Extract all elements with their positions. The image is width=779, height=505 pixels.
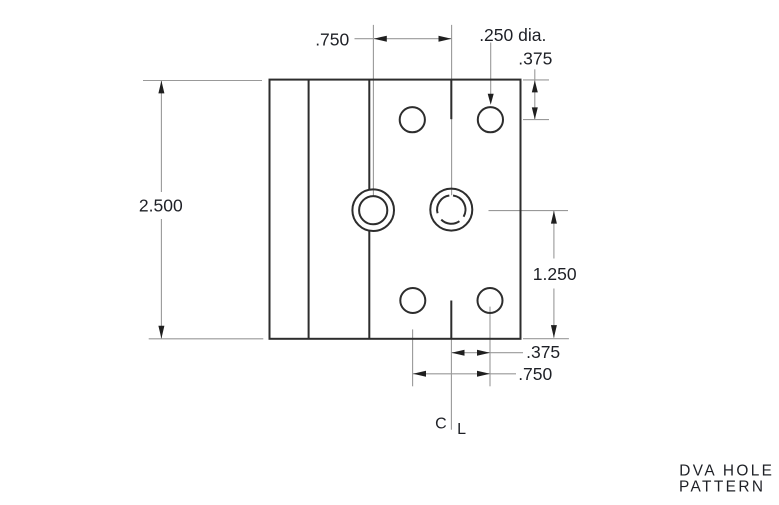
svg-text:L: L [457,421,466,438]
svg-text:PATTERN: PATTERN [679,479,765,496]
svg-text:DVA HOLE: DVA HOLE [679,463,774,480]
svg-text:.750: .750 [315,29,349,49]
svg-text:1.250: 1.250 [533,264,577,284]
svg-text:C: C [435,416,447,433]
svg-text:.375: .375 [518,48,552,68]
svg-text:2.500: 2.500 [139,196,183,216]
svg-text:.375: .375 [526,342,560,362]
svg-text:.750: .750 [518,364,552,384]
svg-text:.250 dia.: .250 dia. [479,25,546,45]
